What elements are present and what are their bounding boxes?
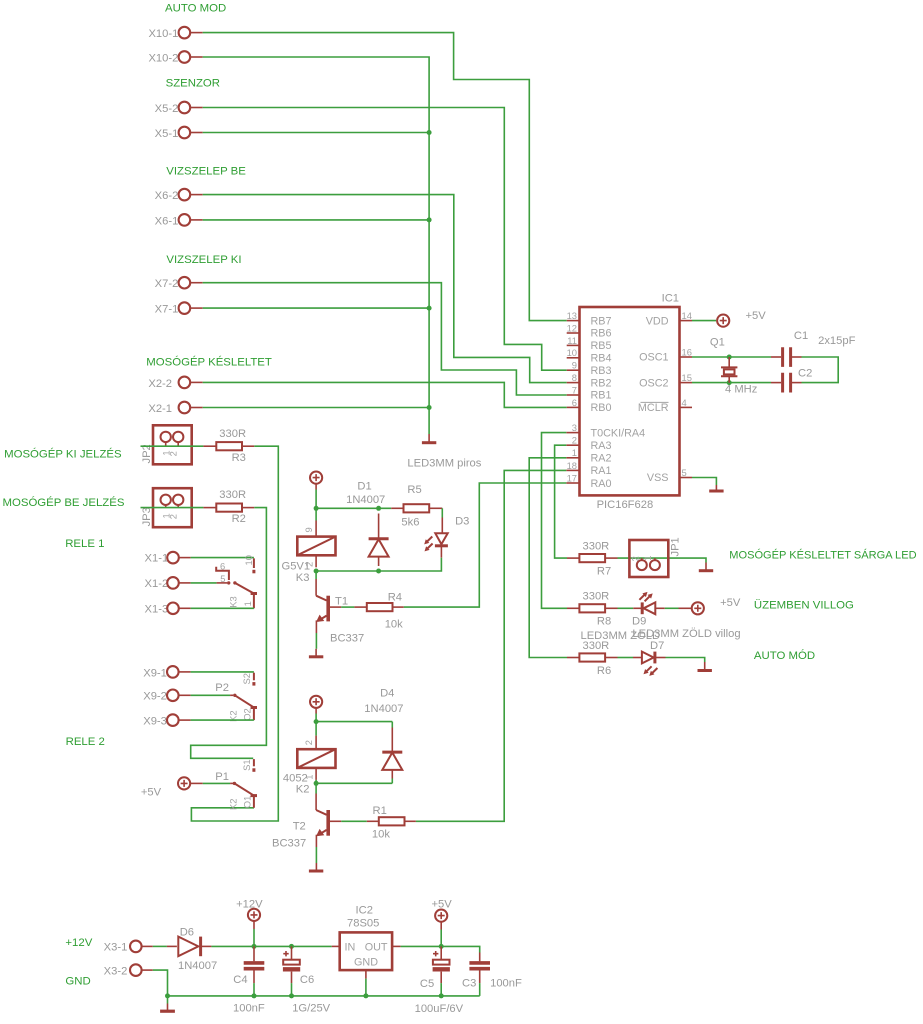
svg-text:2: 2 (572, 435, 577, 446)
svg-text:330R: 330R (583, 591, 610, 603)
svg-text:100nF: 100nF (490, 977, 522, 989)
svg-text:ÜZEMBEN VILLOG: ÜZEMBEN VILLOG (754, 599, 854, 611)
svg-text:RA1: RA1 (591, 465, 612, 477)
svg-text:C1: C1 (794, 330, 808, 342)
junction gnd X3-2 (165, 993, 170, 998)
svg-text:D6: D6 (180, 926, 194, 938)
svg-text:MOSÓGÉP KI JELZÉS: MOSÓGÉP KI JELZÉS (4, 448, 122, 461)
connector X3-1 (104, 941, 153, 954)
svg-text:R6: R6 (597, 665, 611, 677)
capacitor C4 (233, 946, 265, 1014)
wire C1 to C2 (right loop) (802, 357, 839, 383)
svg-text:VDD: VDD (646, 315, 669, 327)
pin 5 VSS (647, 467, 692, 484)
pin 17 RA0 (566, 472, 611, 489)
wire K2 coil bottom rail (316, 780, 392, 783)
svg-text:+5V: +5V (746, 310, 767, 322)
wire R3 to relay K2 contact O1 (191, 446, 278, 821)
svg-text:VSS: VSS (647, 472, 669, 484)
connector X1-1 (145, 552, 191, 565)
pin 1 RA2 (566, 447, 611, 464)
svg-text:C4: C4 (233, 974, 247, 986)
wire OSC2 to crystal/C2 (692, 382, 771, 384)
svg-text:K2: K2 (228, 799, 239, 810)
capacitor C1 (771, 330, 808, 367)
svg-text:X6-1: X6-1 (155, 215, 179, 227)
junction gnd C4 (252, 993, 257, 998)
junction gnd C6 (289, 993, 294, 998)
wire X9-1 to contact S2 (191, 671, 254, 673)
svg-text:X1-2: X1-2 (145, 578, 169, 590)
wire X1-1 to contact 10 (191, 557, 254, 559)
junction coil top / K3 (314, 506, 319, 511)
wire X3-2 to ground rail (153, 970, 168, 996)
svg-text:R7: R7 (597, 566, 611, 578)
svg-text:D7: D7 (650, 640, 664, 652)
contact K2 pin S1 (241, 759, 254, 772)
svg-text:RB0: RB0 (591, 402, 612, 414)
junction X2-1/gnd (427, 405, 432, 410)
wire RA2 to R6 (529, 458, 567, 658)
connector X2-2 (148, 377, 202, 390)
wire coil bottom to T2 collector (315, 783, 317, 793)
junction +12V/C4 (252, 944, 257, 949)
wire R2 to relay K2 contact S1 (191, 508, 267, 759)
svg-text:15: 15 (682, 372, 692, 383)
LED D9 (632, 592, 665, 627)
svg-text:C2: C2 (798, 367, 812, 379)
connector X10-1 (148, 27, 202, 40)
svg-text:MOSÓGÉP KÉSLELTET: MOSÓGÉP KÉSLELTET (146, 356, 272, 369)
svg-text:8: 8 (572, 372, 577, 383)
svg-text:VIZSZELEP BE: VIZSZELEP BE (166, 166, 246, 178)
wire R7 through JP1 to ground (618, 558, 707, 562)
svg-text:X3-2: X3-2 (104, 965, 128, 977)
capacitor C5 (electrolytic) (415, 946, 464, 1015)
svg-text:R3: R3 (232, 452, 246, 464)
capacitor C2 (771, 367, 812, 392)
svg-text:R4: R4 (388, 592, 402, 604)
svg-text:IC2: IC2 (356, 904, 373, 916)
svg-text:100uF/6V: 100uF/6V (415, 1003, 464, 1015)
svg-text:3: 3 (572, 422, 577, 433)
svg-text:RELE 2: RELE 2 (66, 736, 105, 748)
wire X10-1 to IC1 RB7 (203, 33, 567, 321)
supply +5V (VDD) (717, 310, 766, 327)
svg-text:2: 2 (629, 556, 640, 561)
LED D7 (633, 640, 666, 676)
svg-text:10: 10 (567, 347, 577, 358)
pin 12 RB6 (567, 322, 612, 339)
connector X7-2 (155, 277, 203, 290)
wire X10-2 to ground bus (203, 57, 429, 434)
wire X5-2 to IC1 RB3 (203, 108, 567, 371)
wire T1 emitter to ground (315, 633, 317, 649)
diode D6 1N4007 (167, 926, 217, 972)
svg-text:RA0: RA0 (591, 478, 612, 490)
capacitor C3 (462, 953, 522, 996)
svg-text:X9-1: X9-1 (143, 667, 167, 679)
connector X5-2 (155, 102, 203, 115)
wire X7-1 to ground bus (203, 307, 429, 309)
junction C6 top (289, 944, 294, 949)
svg-text:+12V: +12V (236, 898, 263, 910)
svg-text:+12V: +12V (65, 937, 92, 949)
junction X6-1/gnd (427, 217, 432, 222)
diode D4 1N4007 (364, 688, 403, 784)
junction K2 coil bottom (314, 781, 319, 786)
svg-text:RA2: RA2 (591, 453, 612, 465)
svg-text:X10-2: X10-2 (148, 52, 178, 64)
junction coil bottom / D1 (376, 569, 381, 574)
svg-text:P1: P1 (215, 771, 229, 783)
contact K3 pin 10 (243, 555, 254, 573)
relay K3 throw (227, 581, 257, 608)
contact K3 pin 6 bracket (216, 561, 229, 581)
svg-text:100nF: 100nF (233, 1003, 265, 1015)
svg-text:R5: R5 (407, 484, 421, 496)
svg-text:330R: 330R (583, 541, 610, 553)
pin 2 RA3 (566, 435, 611, 452)
pin 9 RB3 (567, 360, 612, 377)
wire OSC1 to crystal/C1 (692, 356, 771, 358)
svg-text:RB2: RB2 (591, 377, 612, 389)
connector X5-1 (155, 127, 203, 140)
svg-text:X2-2: X2-2 (148, 378, 172, 390)
wire X9-2 to contact common P2 (191, 694, 231, 696)
connector X10-2 (148, 51, 202, 64)
wire R8 to D9 (618, 607, 634, 609)
svg-text:6: 6 (220, 561, 225, 572)
svg-text:12: 12 (567, 322, 577, 333)
svg-text:OSC2: OSC2 (639, 377, 668, 389)
svg-text:14: 14 (682, 310, 692, 321)
resistor R8 (567, 591, 618, 628)
svg-text:IC1: IC1 (662, 293, 679, 305)
junction +5V/C5 (439, 944, 444, 949)
relay K3 coil (282, 508, 336, 584)
junction Q1 bottom (727, 380, 732, 385)
svg-text:X7-2: X7-2 (155, 278, 179, 290)
pin 18 RA1 (566, 460, 611, 477)
svg-text:5: 5 (220, 573, 225, 584)
svg-text:RB4: RB4 (591, 353, 612, 365)
transistor T2 BC337 (272, 794, 328, 850)
svg-text:X3-1: X3-1 (104, 942, 128, 954)
svg-text:11: 11 (567, 335, 577, 346)
wire +5V to K2 coil top rail (316, 714, 392, 722)
wire RA3 to R7 (555, 445, 567, 558)
svg-text:4 MHz: 4 MHz (725, 384, 758, 396)
svg-text:4: 4 (682, 397, 687, 408)
svg-text:GND: GND (65, 976, 90, 988)
pin 13 RB7 (567, 310, 612, 327)
svg-text:1N4007: 1N4007 (178, 960, 217, 972)
svg-text:RB3: RB3 (591, 365, 612, 377)
svg-text:1: 1 (572, 447, 577, 458)
supply +12V (236, 898, 263, 946)
wire VSS to ground (692, 478, 716, 486)
supply +5V (D9) (679, 597, 741, 615)
svg-text:X1-3: X1-3 (145, 604, 169, 616)
pin 7 RB1 (567, 384, 612, 401)
svg-text:X10-1: X10-1 (148, 28, 178, 40)
supply +5V (K2 coil) (310, 696, 322, 714)
svg-text:K3: K3 (228, 596, 239, 607)
svg-text:JP3: JP3 (141, 507, 153, 526)
connector X2-1 (148, 402, 202, 415)
connector X7-1 (155, 302, 203, 315)
svg-text:JP1: JP1 (670, 537, 682, 556)
svg-text:+5V: +5V (141, 787, 162, 799)
svg-text:330R: 330R (583, 640, 610, 652)
wire X6-2 to IC1 RB2 (203, 195, 567, 383)
svg-text:D1: D1 (357, 480, 371, 492)
connector X9-3 (143, 714, 190, 727)
relay K2 throw (upper) (228, 694, 257, 722)
svg-text:O2: O2 (241, 708, 252, 721)
wire D9 to +5V (665, 607, 679, 609)
svg-text:S2: S2 (241, 673, 252, 684)
svg-text:X5-1: X5-1 (155, 128, 179, 140)
svg-text:AUTO MÓD: AUTO MÓD (754, 649, 815, 662)
svg-text:PIC16F628: PIC16F628 (597, 499, 654, 511)
pin 11 RB5 (567, 335, 612, 352)
ground (common of X connectors) (422, 434, 436, 443)
svg-text:T0CKI/RA4: T0CKI/RA4 (591, 427, 646, 439)
crystal Q1 (710, 337, 758, 396)
pin 10 RB4 (567, 347, 612, 364)
svg-text:K2: K2 (296, 784, 310, 796)
svg-text:16: 16 (682, 346, 692, 357)
junction Q1 top (727, 355, 732, 360)
capacitor C6 (electrolytic) (283, 946, 331, 1014)
supply +5V (P1) (141, 777, 190, 798)
svg-text:5k6: 5k6 (401, 517, 419, 529)
svg-text:C5: C5 (420, 978, 434, 990)
svg-text:10: 10 (243, 555, 254, 565)
svg-text:+5V: +5V (720, 597, 741, 609)
svg-text:9: 9 (572, 360, 577, 371)
svg-text:LED3MM piros: LED3MM piros (407, 458, 481, 470)
svg-text:RB5: RB5 (591, 340, 612, 352)
wire X5-1 to ground bus (203, 132, 429, 134)
svg-text:K3: K3 (296, 572, 310, 584)
wire X6-1 to ground bus (203, 219, 429, 221)
svg-text:VIZSZELEP KI: VIZSZELEP KI (166, 254, 241, 266)
LED D3 (424, 515, 469, 557)
svg-text:D4: D4 (380, 688, 394, 700)
wire X2-1 to ground bus (203, 407, 429, 409)
wire R6 to D7 (618, 657, 634, 659)
junction gnd C5 (439, 993, 444, 998)
svg-text:18: 18 (567, 460, 577, 471)
connector X9-1 (143, 666, 190, 679)
svg-text:R8: R8 (597, 616, 611, 628)
svg-text:10k: 10k (385, 619, 403, 631)
svg-text:OUT: OUT (365, 941, 388, 953)
wire JP3 to R2 (141, 507, 204, 509)
svg-text:17: 17 (567, 472, 577, 483)
resistor R6 (567, 640, 618, 677)
svg-text:10k: 10k (372, 829, 390, 841)
junction X7-1/gnd (427, 306, 432, 311)
svg-text:T2: T2 (293, 821, 306, 833)
svg-text:P2: P2 (215, 682, 229, 694)
ground (power section) (160, 996, 175, 1011)
svg-text:1: 1 (242, 601, 253, 606)
wire D7 to ground (666, 658, 705, 663)
connector X6-2 (155, 189, 203, 202)
resistor R2 (216, 489, 254, 525)
svg-text:X9-2: X9-2 (143, 691, 167, 703)
svg-text:1: 1 (642, 555, 653, 560)
resistor R3 (216, 428, 254, 464)
svg-text:X5-2: X5-2 (155, 103, 179, 115)
svg-text:RB1: RB1 (591, 390, 612, 402)
contact K2 pin S2 (241, 673, 254, 686)
pin 14 VDD (646, 310, 692, 327)
wire X9-3 to contact O2 (191, 719, 254, 721)
wire coil bottom to T1 collector (315, 571, 317, 579)
svg-text:Q1: Q1 (710, 337, 725, 349)
svg-text:T1: T1 (335, 595, 348, 607)
svg-text:X9-3: X9-3 (143, 716, 167, 728)
supply +5V (K3 coil) (310, 472, 322, 490)
wire T2 emitter to ground (315, 847, 317, 863)
svg-text:330R: 330R (219, 428, 246, 440)
wire X1-3 to contact 1 (191, 607, 254, 609)
junction X5-1/gnd (427, 130, 432, 135)
voltage regulator IC2 78S05 (332, 904, 401, 978)
pin 6 RB0 (567, 397, 612, 414)
wire D6 to IC2 IN (+12V rail) (211, 945, 331, 947)
svg-text:5: 5 (682, 467, 687, 478)
junction IC2 GND (363, 993, 368, 998)
svg-text:R2: R2 (232, 513, 246, 525)
svg-text:+5V: +5V (432, 898, 453, 910)
ground (T1 emitter) (309, 649, 323, 657)
relay K2 coil (283, 722, 336, 796)
svg-text:RB7: RB7 (591, 315, 612, 327)
svg-text:RELE 1: RELE 1 (65, 538, 104, 550)
wire JP2 to R3 (141, 445, 204, 447)
svg-text:RB6: RB6 (591, 328, 612, 340)
connector X6-1 (155, 214, 203, 227)
svg-text:1N4007: 1N4007 (364, 703, 403, 715)
connector JP3 (141, 488, 192, 527)
ground at VSS (709, 485, 723, 491)
svg-text:X7-1: X7-1 (155, 304, 179, 316)
pin 8 RB2 (567, 372, 612, 389)
wire +5V to contact common P1 (190, 782, 203, 784)
ground (JP1 net) (699, 563, 713, 571)
wire T2 base to R1 (330, 820, 341, 822)
svg-text:C3: C3 (462, 977, 476, 989)
svg-text:2x15pF: 2x15pF (818, 335, 855, 347)
svg-text:BC337: BC337 (330, 633, 364, 645)
svg-text:13: 13 (567, 310, 577, 321)
connector X1-2 (145, 577, 191, 590)
svg-text:330R: 330R (219, 489, 246, 501)
svg-text:X1-1: X1-1 (145, 553, 169, 565)
junction coil top / D1 (376, 506, 381, 511)
connector JP2 (141, 425, 192, 464)
resistor R1 (367, 805, 416, 841)
relay K2 throw (lower) (228, 782, 257, 810)
diode D1 1N4007 (346, 480, 389, 566)
op-amp/mcu U IC1 body (580, 293, 680, 512)
wire X3-1 to D6 (153, 945, 167, 947)
connector JP1 (629, 537, 681, 577)
transistor T1 BC337 (316, 579, 364, 645)
svg-text:MCLR: MCLR (638, 402, 669, 414)
connector X9-2 (143, 690, 190, 703)
svg-text:C6: C6 (300, 974, 314, 986)
svg-text:R1: R1 (373, 805, 387, 817)
wire X1-2 to contact common 5 (191, 582, 217, 584)
wire T1 base to R4 (330, 606, 341, 608)
svg-text:MOSÓGÉP BE JELZÉS: MOSÓGÉP BE JELZÉS (3, 496, 125, 509)
svg-text:6: 6 (572, 397, 577, 408)
svg-text:AUTO MOD: AUTO MOD (165, 2, 226, 14)
wire RA4 to R8 (542, 433, 568, 609)
wire VDD to +5V (692, 320, 716, 322)
wire D3 to coil bottom rail (316, 558, 441, 571)
svg-text:1G/25V: 1G/25V (292, 1003, 330, 1015)
svg-text:X6-2: X6-2 (155, 190, 179, 202)
svg-text:1N4007: 1N4007 (346, 494, 385, 506)
junction K2 coil top (314, 719, 319, 724)
resistor R7 (567, 541, 618, 578)
resistor R5 (391, 484, 442, 528)
wire IC2 OUT (+5V rail) (401, 946, 480, 952)
svg-text:4052: 4052 (283, 772, 308, 784)
svg-text:G5V1: G5V1 (282, 561, 311, 573)
junction coil bottom / K3 (314, 569, 319, 574)
svg-text:GND: GND (354, 957, 378, 969)
svg-text:RA3: RA3 (591, 440, 612, 452)
svg-text:D3: D3 (455, 515, 469, 527)
svg-text:LED3MM ZÖLD villog: LED3MM ZÖLD villog (632, 628, 740, 640)
svg-text:X2-1: X2-1 (148, 403, 172, 415)
supply +5V (out) (432, 898, 453, 946)
svg-text:O1: O1 (241, 796, 252, 809)
svg-text:JP2: JP2 (141, 444, 153, 463)
svg-text:2: 2 (303, 740, 314, 745)
pin 3 T0CKI/RA4 (566, 422, 645, 439)
wire X2-2 to IC1 RB0 (203, 382, 567, 407)
svg-text:BC337: BC337 (272, 837, 306, 849)
svg-text:78S05: 78S05 (347, 918, 379, 930)
ground (D7 net) (698, 662, 712, 671)
svg-text:IN: IN (345, 941, 356, 953)
svg-text:2: 2 (168, 451, 179, 456)
svg-text:9: 9 (303, 527, 314, 532)
pin 16 OSC1 (639, 346, 692, 363)
svg-text:MOSÓGÉP KÉSLELTET SÁRGA LED: MOSÓGÉP KÉSLELTET SÁRGA LED (729, 548, 916, 561)
wire R5 to D3 (441, 508, 443, 517)
svg-text:S1: S1 (241, 759, 252, 770)
pin 4 MCLR (638, 397, 692, 414)
pin 15 OSC2 (639, 372, 692, 389)
svg-text:OSC1: OSC1 (639, 352, 668, 364)
svg-text:2: 2 (168, 514, 179, 519)
connector X1-3 (145, 603, 191, 616)
svg-text:SZENZOR: SZENZOR (166, 77, 220, 89)
wire R4 to RA0 (404, 483, 567, 607)
svg-text:D9: D9 (632, 615, 646, 627)
